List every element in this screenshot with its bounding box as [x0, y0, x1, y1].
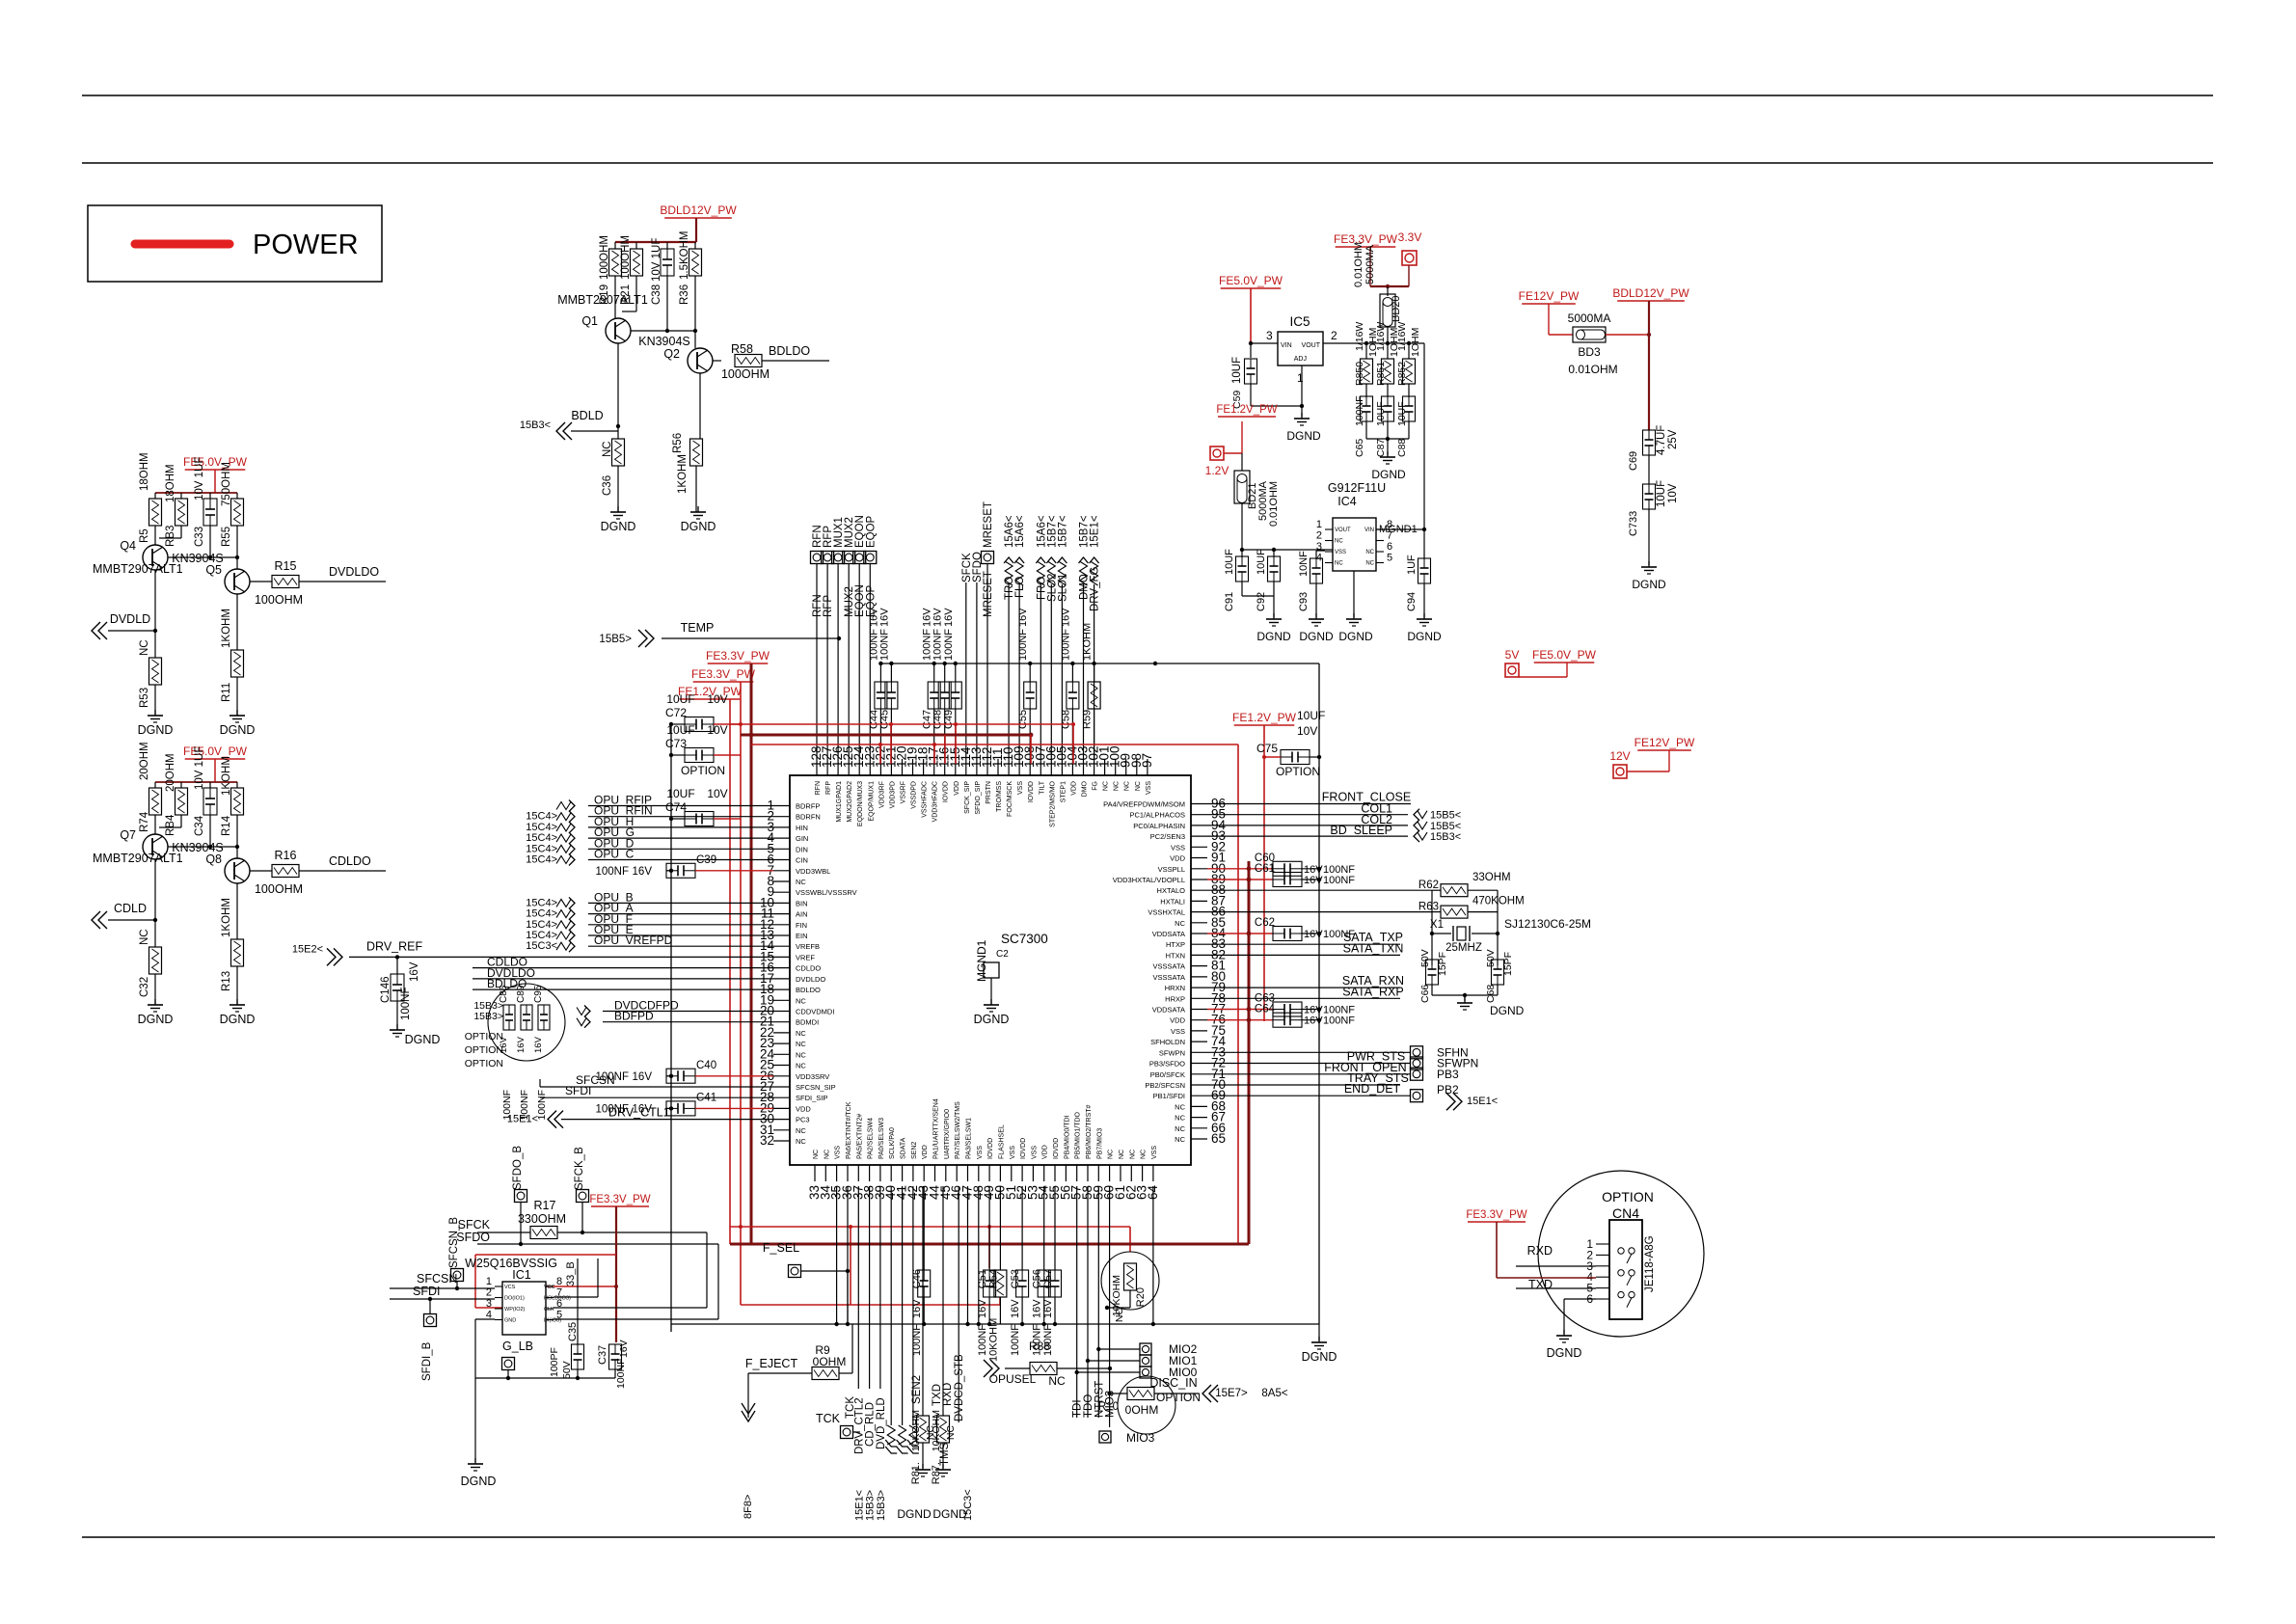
svg-text:VDD: VDD: [1170, 854, 1185, 863]
svg-text:VDD: VDD: [796, 1104, 811, 1113]
svg-text:PB0/SFCK: PB0/SFCK: [1150, 1070, 1185, 1079]
svg-text:BDLD12V_PW: BDLD12V_PW: [1612, 286, 1689, 300]
svg-text:SLO1: SLO1: [1057, 574, 1068, 602]
svg-text:DRV_REF: DRV_REF: [366, 939, 422, 953]
svg-text:VSS: VSS: [835, 1146, 842, 1159]
svg-text:50V: 50V: [1419, 949, 1431, 967]
svg-text:PA7/SELSW2/TMS: PA7/SELSW2/TMS: [955, 1101, 961, 1159]
svg-text:FG: FG: [1093, 781, 1099, 791]
svg-text:EQOP/MUX1: EQOP/MUX1: [868, 781, 875, 822]
svg-text:15B3>: 15B3>: [876, 1490, 887, 1521]
svg-text:10UF: 10UF: [666, 787, 694, 800]
svg-text:W25Q16BVSSIG: W25Q16BVSSIG: [465, 1257, 557, 1270]
svg-text:R17: R17: [534, 1199, 556, 1212]
svg-text:SFHOLDN: SFHOLDN: [1150, 1038, 1185, 1046]
svg-text:NC: NC: [1124, 781, 1131, 791]
svg-text:VSSWBL/VSSSRV: VSSWBL/VSSSRV: [796, 888, 857, 897]
svg-text:WP(IO2): WP(IO2): [504, 1307, 526, 1313]
svg-text:C73: C73: [665, 737, 687, 750]
svg-text:TEMP: TEMP: [681, 621, 715, 635]
svg-text:FE5.0V_PW: FE5.0V_PW: [183, 455, 248, 469]
svg-text:FIN: FIN: [796, 921, 807, 930]
svg-text:HXTALI: HXTALI: [1160, 897, 1185, 906]
svg-text:NC: NC: [1335, 539, 1343, 545]
svg-text:SFCSN: SFCSN: [417, 1272, 457, 1286]
svg-text:VREFB: VREFB: [796, 942, 820, 951]
svg-text:15B5<: 15B5<: [1430, 821, 1461, 832]
svg-text:16V: 16V: [409, 961, 420, 982]
svg-text:VSSPLL: VSSPLL: [1158, 865, 1185, 874]
svg-text:1.2V: 1.2V: [1205, 464, 1229, 477]
svg-text:KN3904S: KN3904S: [172, 552, 224, 565]
svg-text:SCLK/PA0: SCLK/PA0: [889, 1127, 896, 1159]
svg-text:POWER: POWER: [253, 230, 359, 260]
svg-text:R15: R15: [275, 559, 297, 573]
svg-text:NC: NC: [796, 1137, 806, 1146]
svg-text:DGND: DGND: [138, 723, 174, 737]
svg-text:BDMDI: BDMDI: [796, 1018, 819, 1027]
svg-text:F_EJECT: F_EJECT: [745, 1357, 798, 1370]
svg-text:10V: 10V: [707, 723, 727, 737]
svg-text:SFDI: SFDI: [413, 1285, 440, 1298]
svg-text:25MHZ: 25MHZ: [1445, 942, 1482, 954]
svg-text:C56: C56: [1032, 1269, 1043, 1288]
svg-text:VSSHXTAL: VSSHXTAL: [1148, 908, 1185, 917]
svg-text:NC: NC: [1129, 1150, 1136, 1159]
svg-text:10V: 10V: [1297, 724, 1317, 738]
svg-text:16V: 16V: [1304, 875, 1323, 886]
svg-text:C61: C61: [1255, 863, 1275, 875]
svg-text:15C4>: 15C4>: [526, 854, 557, 866]
svg-text:HIN: HIN: [796, 824, 808, 832]
svg-text:END_DET: END_DET: [1344, 1082, 1401, 1096]
svg-text:C733: C733: [1628, 511, 1639, 536]
svg-text:MUX1GPAD1: MUX1GPAD1: [836, 781, 843, 823]
svg-text:DGND: DGND: [601, 520, 636, 533]
svg-text:10UF: 10UF: [1375, 401, 1387, 426]
svg-text:VDD: VDD: [1170, 1016, 1185, 1025]
svg-text:SFDO: SFDO: [972, 552, 984, 582]
svg-text:TMS: TMS: [939, 1442, 951, 1466]
svg-text:C32: C32: [139, 977, 150, 997]
svg-text:100OHM: 100OHM: [255, 593, 303, 607]
svg-text:DRV_CTL2: DRV_CTL2: [853, 1397, 865, 1454]
svg-text:BDLDO: BDLDO: [769, 344, 810, 358]
svg-text:OPTION: OPTION: [1156, 1391, 1201, 1404]
svg-text:NC: NC: [1175, 1102, 1185, 1111]
svg-text:18OHM: 18OHM: [139, 452, 150, 491]
svg-text:10KOHM: 10KOHM: [910, 1410, 922, 1451]
svg-text:0.01OHM: 0.01OHM: [1268, 481, 1280, 527]
svg-text:PB7/MIO3: PB7/MIO3: [1096, 1128, 1103, 1159]
svg-text:IOVDD: IOVDD: [1020, 1138, 1027, 1159]
svg-text:SFDI_B: SFDI_B: [421, 1341, 433, 1381]
svg-text:NC: NC: [1048, 1374, 1066, 1388]
svg-text:NC: NC: [1114, 781, 1121, 791]
svg-text:DGND: DGND: [681, 520, 716, 533]
svg-text:C51: C51: [977, 1269, 988, 1288]
svg-text:10V 1UF: 10V 1UF: [194, 746, 205, 790]
svg-text:R20: R20: [1135, 1287, 1147, 1307]
svg-text:C93: C93: [1298, 592, 1310, 611]
svg-text:100PF: 100PF: [549, 1347, 560, 1377]
svg-text:EQOP: EQOP: [865, 515, 877, 548]
svg-text:SEN2: SEN2: [911, 1375, 923, 1404]
svg-text:OPU_C: OPU_C: [594, 848, 635, 861]
svg-text:100NF: 100NF: [595, 866, 629, 878]
svg-text:R851: R851: [1375, 362, 1387, 386]
svg-text:IC5: IC5: [1289, 314, 1310, 329]
svg-text:10V: 10V: [707, 692, 727, 706]
svg-text:BIN: BIN: [796, 899, 808, 907]
svg-text:16V: 16V: [1032, 1299, 1043, 1318]
svg-text:33_B: 33_B: [565, 1261, 577, 1286]
svg-text:DGND: DGND: [1302, 1350, 1337, 1364]
svg-text:NC: NC: [1175, 1135, 1185, 1144]
svg-text:15C4>: 15C4>: [526, 822, 557, 833]
svg-text:16V: 16V: [943, 608, 955, 627]
svg-text:DGND: DGND: [1299, 630, 1334, 643]
svg-text:100NF: 100NF: [1010, 1324, 1021, 1356]
svg-text:KN3904S: KN3904S: [638, 335, 690, 348]
svg-text:15C4>: 15C4>: [526, 811, 557, 823]
svg-text:Q8: Q8: [205, 853, 222, 866]
svg-text:DVDCD_STB: DVDCD_STB: [954, 1354, 965, 1421]
svg-text:HTXN: HTXN: [1166, 951, 1185, 960]
svg-text:1KOHM: 1KOHM: [221, 898, 232, 937]
svg-text:1KOHM: 1KOHM: [221, 756, 232, 796]
svg-text:C2: C2: [996, 949, 1009, 960]
svg-text:1: 1: [1316, 519, 1322, 530]
svg-text:MGND1: MGND1: [975, 939, 988, 982]
svg-text:VDDSATA: VDDSATA: [1152, 1006, 1185, 1015]
svg-text:R16: R16: [275, 849, 297, 862]
svg-text:VDD: VDD: [1070, 781, 1077, 796]
svg-text:750OHM: 750OHM: [221, 462, 232, 506]
svg-text:C68: C68: [1485, 985, 1497, 1003]
svg-text:BDRFP: BDRFP: [796, 802, 820, 811]
svg-text:PC2/SEN3: PC2/SEN3: [1150, 832, 1185, 841]
svg-text:C65: C65: [1354, 439, 1365, 457]
svg-text:1/16W: 1/16W: [1354, 322, 1365, 351]
svg-text:VSS: VSS: [1335, 550, 1346, 555]
svg-text:VDD3HFADC: VDD3HFADC: [932, 781, 939, 822]
svg-text:15PF: 15PF: [1437, 952, 1448, 976]
svg-text:PA0/SELSW3: PA0/SELSW3: [878, 1118, 885, 1159]
svg-text:NC: NC: [796, 1040, 806, 1048]
svg-text:FE5.0V_PW: FE5.0V_PW: [183, 744, 248, 758]
svg-text:10UF: 10UF: [1224, 549, 1235, 575]
svg-text:8: 8: [556, 1276, 562, 1287]
svg-text:16V: 16V: [1042, 1299, 1054, 1318]
svg-text:DGND: DGND: [405, 1033, 441, 1046]
svg-text:R58: R58: [731, 342, 753, 356]
svg-text:DRV_CTL1: DRV_CTL1: [608, 1106, 670, 1120]
svg-text:MMBT2907ALT1: MMBT2907ALT1: [557, 293, 648, 307]
svg-text:MRESET: MRESET: [983, 501, 994, 548]
svg-text:1OHM: 1OHM: [1410, 328, 1421, 357]
svg-text:CDLD: CDLD: [114, 902, 147, 915]
svg-text:DMO: DMO: [1082, 780, 1089, 797]
svg-text:8F8>: 8F8>: [743, 1495, 754, 1519]
svg-text:R54: R54: [987, 1269, 999, 1288]
svg-text:NC: NC: [796, 1029, 806, 1038]
svg-text:SFCSN_B: SFCSN_B: [448, 1217, 460, 1268]
svg-text:CD_RLD: CD_RLD: [865, 1402, 877, 1447]
svg-text:8A5<: 8A5<: [1261, 1388, 1287, 1399]
svg-text:CIN: CIN: [796, 856, 808, 865]
svg-text:FE12V_PW: FE12V_PW: [1519, 289, 1580, 303]
svg-text:C45: C45: [878, 710, 890, 729]
svg-text:OPU_VREFPD: OPU_VREFPD: [594, 934, 673, 947]
svg-text:NC: NC: [824, 1150, 830, 1159]
svg-text:NC: NC: [796, 996, 806, 1005]
svg-text:32: 32: [760, 1133, 774, 1148]
svg-text:33OHM: 33OHM: [1472, 872, 1511, 883]
svg-text:16V: 16V: [878, 608, 890, 627]
svg-text:RFP: RFP: [823, 595, 834, 617]
svg-text:50V: 50V: [1485, 949, 1497, 967]
svg-text:3.3V: 3.3V: [1398, 230, 1422, 244]
svg-text:100NF: 100NF: [1323, 875, 1355, 886]
svg-text:C92: C92: [1256, 592, 1267, 611]
svg-text:1KOHM: 1KOHM: [221, 609, 232, 648]
svg-text:15E1<: 15E1<: [507, 1114, 538, 1125]
svg-text:VCC: VCC: [544, 1285, 555, 1290]
svg-text:R53: R53: [139, 688, 150, 708]
svg-text:DGND: DGND: [1407, 630, 1442, 643]
svg-text:MIO3: MIO3: [1126, 1431, 1155, 1445]
svg-text:TILT: TILT: [1039, 780, 1045, 795]
svg-text:15C3<: 15C3<: [526, 940, 557, 952]
svg-text:MUX2GPAD2: MUX2GPAD2: [847, 781, 853, 823]
svg-text:C74: C74: [665, 800, 687, 814]
svg-text:OPUSEL: OPUSEL: [989, 1372, 1037, 1386]
svg-text:R56: R56: [672, 433, 684, 453]
svg-text:10NF: 10NF: [1298, 551, 1310, 577]
svg-text:PB5/MIO1/TDO: PB5/MIO1/TDO: [1075, 1111, 1082, 1159]
svg-text:BDFPD: BDFPD: [614, 1010, 654, 1023]
svg-text:VREF: VREF: [796, 953, 815, 961]
svg-text:HXTALO: HXTALO: [1157, 886, 1186, 895]
svg-text:Q7: Q7: [120, 828, 136, 842]
svg-text:R14: R14: [221, 815, 232, 836]
svg-text:NC: NC: [139, 639, 150, 656]
svg-text:FE1.2V_PW: FE1.2V_PW: [1216, 404, 1277, 416]
svg-text:BD20: BD20: [1391, 295, 1402, 322]
svg-text:15E1<: 15E1<: [1467, 1096, 1498, 1107]
svg-text:PC3: PC3: [796, 1116, 810, 1124]
svg-text:R10: R10: [1098, 1401, 1119, 1413]
svg-text:DGND: DGND: [1286, 429, 1321, 443]
svg-text:VIN: VIN: [1281, 342, 1292, 349]
svg-text:C89: C89: [516, 985, 527, 1003]
svg-text:Q4: Q4: [120, 539, 136, 553]
svg-text:16V: 16V: [516, 1036, 527, 1053]
svg-text:VDD3HXTAL/VDOPLL: VDD3HXTAL/VDOPLL: [1113, 876, 1185, 884]
svg-text:1: 1: [1297, 371, 1304, 385]
svg-text:CN4: CN4: [1612, 1205, 1639, 1221]
svg-text:BDLD12V_PW: BDLD12V_PW: [660, 203, 737, 217]
svg-text:DVD_RLD: DVD_RLD: [876, 1397, 887, 1449]
svg-text:10UF: 10UF: [1656, 480, 1667, 507]
svg-text:16V: 16V: [633, 866, 653, 878]
svg-text:DGND: DGND: [461, 1475, 497, 1488]
svg-text:SFCK_SIP: SFCK_SIP: [964, 781, 971, 814]
svg-text:NC: NC: [1141, 1150, 1148, 1159]
svg-text:DO(IO1): DO(IO1): [504, 1296, 525, 1302]
svg-text:DGND: DGND: [1371, 468, 1406, 481]
svg-text:PA6/EXTINT#/TCK: PA6/EXTINT#/TCK: [846, 1101, 852, 1159]
svg-text:PB6/MIO2/TRST#: PB6/MIO2/TRST#: [1086, 1104, 1093, 1159]
svg-text:10UF: 10UF: [1256, 549, 1267, 575]
svg-text:15E2<: 15E2<: [292, 943, 323, 955]
svg-text:PB2/SFCSN: PB2/SFCSN: [1145, 1081, 1185, 1090]
svg-text:DVDLDO: DVDLDO: [329, 565, 379, 579]
svg-text:HTXP: HTXP: [1166, 940, 1185, 949]
svg-text:0OHM: 0OHM: [1125, 1403, 1159, 1417]
svg-text:STEP1: STEP1: [1060, 781, 1067, 802]
svg-text:18OHM: 18OHM: [165, 464, 176, 502]
svg-text:DGND: DGND: [932, 1507, 967, 1521]
svg-text:OPTION: OPTION: [1276, 765, 1320, 778]
svg-text:VDD: VDD: [922, 1145, 929, 1159]
svg-text:G912F11U: G912F11U: [1328, 481, 1386, 495]
svg-text:DGND: DGND: [1256, 630, 1291, 643]
svg-text:VSS: VSS: [1010, 1146, 1016, 1159]
svg-text:C146: C146: [380, 977, 392, 1004]
svg-text:16V: 16V: [1304, 1005, 1323, 1016]
svg-text:3: 3: [1266, 329, 1273, 342]
svg-text:16V: 16V: [977, 1299, 988, 1318]
svg-text:OPTION: OPTION: [465, 1058, 503, 1069]
svg-text:NC: NC: [139, 929, 150, 945]
svg-text:BDRFN: BDRFN: [796, 813, 821, 822]
svg-text:C88: C88: [1396, 439, 1408, 457]
svg-text:DVDLD: DVDLD: [110, 612, 150, 626]
svg-text:5: 5: [1387, 553, 1392, 564]
svg-text:10UF: 10UF: [1231, 357, 1243, 384]
svg-text:OPTION: OPTION: [465, 1044, 503, 1056]
svg-text:NC: NC: [602, 441, 613, 457]
svg-text:100OHM: 100OHM: [620, 235, 632, 280]
svg-text:R852: R852: [1396, 362, 1408, 386]
svg-text:ADJ: ADJ: [1294, 356, 1307, 363]
svg-text:TCK: TCK: [816, 1412, 841, 1425]
svg-text:DGND: DGND: [1632, 578, 1666, 591]
svg-text:5V: 5V: [1505, 648, 1520, 662]
svg-text:C72: C72: [665, 706, 687, 719]
svg-text:10V 1UF: 10V 1UF: [651, 238, 662, 282]
svg-text:1UF: 1UF: [1406, 555, 1418, 575]
svg-text:100OHM: 100OHM: [255, 882, 303, 896]
svg-text:0.01OHM: 0.01OHM: [1568, 363, 1617, 376]
svg-text:5000MA: 5000MA: [1364, 244, 1376, 284]
svg-text:SFCK: SFCK: [458, 1218, 491, 1232]
svg-text:16V: 16V: [1010, 1299, 1021, 1318]
svg-text:VSS: VSS: [1171, 1027, 1185, 1036]
svg-text:R850: R850: [1354, 362, 1365, 386]
svg-text:C34: C34: [194, 815, 205, 836]
svg-text:SATA_RXP: SATA_RXP: [1342, 985, 1403, 998]
svg-text:15E1<: 15E1<: [853, 1490, 865, 1521]
svg-text:SFDO_SIP: SFDO_SIP: [975, 781, 982, 815]
svg-text:C95: C95: [533, 985, 544, 1003]
svg-text:R63: R63: [1418, 902, 1439, 913]
svg-text:330OHM: 330OHM: [518, 1212, 566, 1226]
svg-text:15B3<: 15B3<: [1430, 831, 1461, 843]
svg-text:C87: C87: [1375, 439, 1387, 457]
svg-text:R88: R88: [1029, 1340, 1050, 1353]
svg-text:BDLD: BDLD: [571, 409, 603, 422]
svg-text:PC1/ALPHACOS: PC1/ALPHACOS: [1129, 811, 1185, 820]
svg-text:C37: C37: [597, 1345, 608, 1365]
svg-text:C66: C66: [1419, 985, 1431, 1003]
svg-text:GIN: GIN: [796, 834, 808, 843]
svg-text:SFCK_B: SFCK_B: [574, 1147, 585, 1190]
svg-text:R11: R11: [221, 683, 232, 702]
svg-text:MMBT2907ALT1: MMBT2907ALT1: [93, 562, 183, 576]
svg-text:C91: C91: [1224, 592, 1235, 611]
svg-text:DVDLDO: DVDLDO: [796, 975, 825, 984]
svg-text:VOUT: VOUT: [1335, 528, 1351, 533]
svg-text:10V 1UF: 10V 1UF: [194, 457, 205, 501]
svg-text:CLK: CLK: [544, 1307, 554, 1313]
svg-text:IOVDD: IOVDD: [943, 781, 950, 802]
svg-text:SDATA: SDATA: [901, 1137, 907, 1159]
svg-text:FLO: FLO: [1014, 577, 1026, 598]
svg-text:VSS: VSS: [977, 1146, 984, 1159]
svg-text:NC: NC: [1365, 550, 1374, 555]
svg-text:R74: R74: [139, 811, 150, 832]
svg-text:15B3>: 15B3>: [473, 1011, 503, 1022]
svg-text:100OHM: 100OHM: [599, 235, 610, 280]
svg-text:15E7>: 15E7>: [1215, 1388, 1248, 1399]
svg-text:R62: R62: [1418, 880, 1439, 891]
svg-text:C49: C49: [943, 710, 955, 729]
svg-text:VSSRF: VSSRF: [901, 781, 907, 803]
svg-text:1KOHM: 1KOHM: [677, 454, 689, 494]
svg-text:NC: NC: [1175, 919, 1185, 928]
svg-text:4.7UF: 4.7UF: [1656, 425, 1667, 455]
svg-text:FOC/MSCK: FOC/MSCK: [1007, 781, 1013, 817]
svg-text:5000MA: 5000MA: [1568, 311, 1611, 325]
svg-text:1.5KOHM: 1.5KOHM: [679, 231, 690, 281]
svg-text:FE5.0V_PW: FE5.0V_PW: [1219, 274, 1283, 287]
svg-text:0OHM: 0OHM: [813, 1355, 847, 1368]
svg-text:NC: NC: [1335, 561, 1343, 567]
svg-text:X1: X1: [1430, 919, 1444, 931]
svg-text:OPTION: OPTION: [681, 764, 725, 777]
svg-text:12V: 12V: [1609, 749, 1630, 763]
svg-text:EIN: EIN: [796, 932, 808, 940]
svg-text:FE3.3V_PW: FE3.3V_PW: [1466, 1209, 1526, 1221]
svg-text:NC: NC: [1175, 1114, 1185, 1123]
svg-text:VSSDPD: VSSDPD: [911, 781, 918, 809]
svg-text:DISC_IN: DISC_IN: [1149, 1376, 1197, 1390]
svg-text:15C4>: 15C4>: [526, 930, 557, 941]
svg-text:DGND: DGND: [974, 1013, 1010, 1026]
svg-text:100NF: 100NF: [977, 1324, 988, 1356]
svg-text:VSSSATA: VSSSATA: [1153, 962, 1185, 971]
svg-text:15B3<: 15B3<: [520, 420, 551, 431]
svg-text:VDD3SRV: VDD3SRV: [796, 1072, 829, 1081]
svg-text:100NF: 100NF: [1323, 1005, 1355, 1016]
svg-text:FE12V_PW: FE12V_PW: [1634, 736, 1695, 749]
svg-text:R13: R13: [221, 971, 232, 991]
svg-text:VDD3WBL: VDD3WBL: [796, 867, 830, 876]
svg-text:F_SEL: F_SEL: [763, 1241, 799, 1255]
